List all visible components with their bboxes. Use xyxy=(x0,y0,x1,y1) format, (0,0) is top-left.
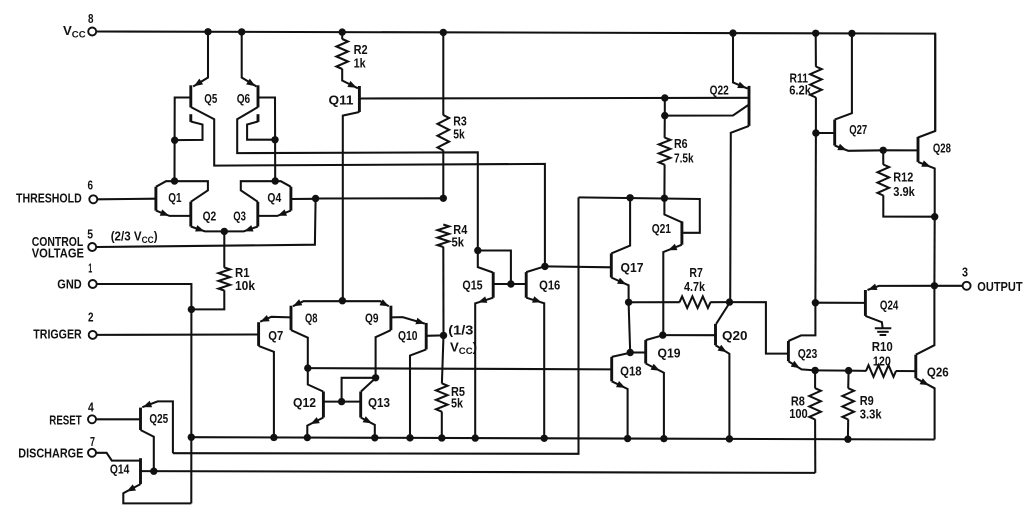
svg-text:Q12: Q12 xyxy=(293,395,316,410)
label R7 xyxy=(689,265,702,280)
transistor Q18 base bar xyxy=(610,357,613,381)
wire: Q15/Q16 base row xyxy=(493,283,526,285)
label 5k (R4) xyxy=(452,235,465,250)
svg-text:6: 6 xyxy=(88,178,94,193)
transistor Q8 base bar xyxy=(290,306,293,330)
label Vcc xyxy=(63,23,86,41)
label Q24 xyxy=(880,297,899,312)
svg-text:R7: R7 xyxy=(689,265,702,280)
label 5k xyxy=(453,126,465,141)
wire: Q8/Q12 node line right to Q18 base xyxy=(308,368,612,369)
label pin number 7 xyxy=(90,434,95,449)
label R10 xyxy=(872,339,893,354)
resistor R1 (10k) body xyxy=(219,268,231,291)
label Vcc) xyxy=(450,340,477,358)
transistor Q19 base bar xyxy=(644,340,647,363)
wire: Q4 base node right to R3/R4 junction xyxy=(316,197,444,199)
wire: Q5 inner collector hook xyxy=(175,122,203,141)
wire: OUTPUT node to pin 3 xyxy=(934,285,962,287)
junction dot R3/R4 junction xyxy=(440,195,447,202)
junction dot Q1/Q5 node xyxy=(171,177,178,184)
label OUTPUT xyxy=(977,279,1022,294)
pin VCC terminal circle (pin 8) xyxy=(88,28,96,36)
wire: Q3 collector to node and over to Q4 collector node xyxy=(241,181,275,202)
wire: Q25 emitter up over and down to reset net xyxy=(142,401,173,453)
transistor Q15 base bar xyxy=(492,272,495,298)
wire: Q5 base left and down to Q1 collector node xyxy=(175,98,191,182)
svg-text:Q14: Q14 xyxy=(110,462,130,477)
junction dot Q5 base / inner collector xyxy=(171,137,178,144)
label 120 xyxy=(873,353,891,368)
svg-text:RESET: RESET xyxy=(49,412,81,427)
wire: Q1 emitter to Q2 base xyxy=(156,211,191,216)
svg-text:DISCHARGE: DISCHARGE xyxy=(18,446,83,461)
svg-text:2: 2 xyxy=(88,310,94,325)
junction dot Q19 base node xyxy=(627,349,634,356)
wire: Q12 emitter down to bottom rail xyxy=(307,418,323,438)
wire: Q28 collector up to rail corner xyxy=(918,34,935,138)
transistor Q7 emitter arrow (PNP) xyxy=(260,315,269,322)
junction dot Q28 base node xyxy=(880,147,887,154)
svg-text:Q1: Q1 xyxy=(168,190,181,205)
junction dot Q4 base node xyxy=(312,195,319,202)
wire: Q25 collector down to Q14 collector node xyxy=(141,430,154,471)
wire: cross link from Q9/Q13 node to base row xyxy=(342,378,376,402)
svg-text:Q13: Q13 xyxy=(368,395,390,410)
svg-text:4: 4 xyxy=(88,400,94,415)
wire: Q16 emitter down to bottom rail xyxy=(526,298,544,438)
junction dots on VCC rail xyxy=(204,28,855,37)
wire: R5 bottom to bottom rail xyxy=(441,412,443,438)
junction dot Q27 base node xyxy=(812,129,819,136)
svg-text:R6: R6 xyxy=(674,136,688,151)
pin DISCHARGE terminal circle (pin 7) xyxy=(88,449,96,457)
label Q6 xyxy=(237,91,251,106)
label Q22 xyxy=(710,83,729,98)
wire: Q15 collector node over to base row xyxy=(478,251,511,285)
wire: Q21 collector feed xyxy=(664,198,682,222)
wire: Q12/Q13 base interconnect xyxy=(323,401,360,403)
label Q25 xyxy=(149,411,168,426)
ground symbol below Q24 xyxy=(875,328,892,335)
wire: VCC top rail from pin 8 to top-right corner xyxy=(97,32,936,132)
transistor Q17 emitter arrow xyxy=(617,278,626,285)
wire: Q18 emitter down to bottom rail xyxy=(612,381,628,438)
label 100 xyxy=(789,406,808,421)
wire: GND pin right then down to bottom rail and Q14 emitter corner xyxy=(97,284,192,503)
transistor Q24 emitter arrow (PNP) xyxy=(868,284,877,290)
transistor Q3 emitter arrow xyxy=(244,225,253,231)
svg-text:Q2: Q2 xyxy=(203,208,217,223)
wire: R8 node to R9 node xyxy=(815,369,849,371)
junction dot Q4/Q6 node xyxy=(272,177,279,184)
wire: Q28 emitter node down to OUTPUT node xyxy=(933,217,935,286)
wire: Q6 base right and down to Q4 collector node xyxy=(258,98,275,182)
transistor Q10 base bar xyxy=(425,323,428,350)
label GND xyxy=(57,276,81,291)
label Q23 xyxy=(798,346,818,361)
resistor R6 (7.5k) body xyxy=(659,138,671,165)
wire: R3 bottom to R4 node xyxy=(442,150,444,198)
wire: Q12 collector up to node xyxy=(308,368,323,391)
transistor Q9 emitter arrow (PNP) xyxy=(380,299,389,306)
junction dot Q25/Q14 collector node xyxy=(150,468,157,475)
svg-text:VOLTAGE: VOLTAGE xyxy=(32,245,84,260)
label Q16 xyxy=(539,278,560,293)
transistor Q11 emitter arrow (PNP, from R2) xyxy=(347,81,356,88)
label 6.2k xyxy=(789,83,811,98)
label 3.9k xyxy=(893,184,915,199)
transistor Q14 emitter arrow xyxy=(127,484,136,491)
wire: Q20 base line xyxy=(663,334,716,336)
wire: R2 bottom to Q11 emitter xyxy=(342,69,358,89)
transistor Q8 emitter arrow (PNP) xyxy=(293,299,302,306)
svg-text:R10: R10 xyxy=(872,339,893,354)
transistor Q18 emitter arrow xyxy=(616,381,625,388)
resistor R4 (5k) body xyxy=(438,225,450,248)
wire: R6 node line (reset net) with Q21 loop xyxy=(579,197,700,232)
label R12 xyxy=(893,170,913,185)
svg-text:Q7: Q7 xyxy=(268,328,283,343)
transistor Q22 emitter arrow (PNP) xyxy=(737,82,746,89)
svg-text:Q22: Q22 xyxy=(710,83,729,98)
transistor Q10 emitter arrow (PNP) xyxy=(415,318,424,325)
wire: Q13 collector diagonal up to Q9 node xyxy=(361,378,375,391)
transistor Q19 emitter arrow xyxy=(651,364,660,371)
wire: R6 top tap down xyxy=(664,98,666,116)
junction dot base row node xyxy=(507,280,514,287)
wire: VCC rail to Q5 emitter xyxy=(193,32,208,87)
svg-text:8: 8 xyxy=(88,11,94,26)
wire: OUTPUT node to Q24 emitter xyxy=(868,286,935,290)
wire: Q28 base node down to R12 xyxy=(882,150,884,164)
transistor Q6 second (inner) bar xyxy=(257,114,260,122)
label Q20 xyxy=(722,328,748,343)
wire: R10 right lead to Q26 base xyxy=(896,370,916,372)
svg-text:Q25: Q25 xyxy=(149,411,168,426)
svg-text:Q10: Q10 xyxy=(398,328,418,343)
wire: R11 node down to Q24 base node xyxy=(814,133,817,303)
wire: Q6 outer collector down and right to Q15 collector line xyxy=(237,107,478,251)
label R4 xyxy=(453,222,468,237)
svg-text:Q9: Q9 xyxy=(365,311,379,326)
transistor Q1 base bar xyxy=(154,187,157,211)
transistor Q13 base bar xyxy=(359,392,362,418)
wire: Q24 collector to ground symbol xyxy=(865,316,882,328)
svg-text:Q20: Q20 xyxy=(722,328,748,343)
svg-text:Q26: Q26 xyxy=(927,364,949,379)
label pin number 3 xyxy=(962,265,968,280)
label 1k xyxy=(354,56,367,71)
label Q17 xyxy=(621,260,644,275)
junction dot Q16 collector node xyxy=(541,263,548,270)
transistor Q27 base bar xyxy=(833,120,836,146)
transistor Q17 base bar xyxy=(610,253,613,277)
wire: Q10 base right to 1/3 Vcc node xyxy=(426,334,443,336)
transistor Q2 base bar xyxy=(189,202,192,227)
label Q5 xyxy=(204,91,217,106)
svg-text:Q19: Q19 xyxy=(658,346,681,361)
label 4.7k xyxy=(684,279,706,294)
junction dot OUTPUT node xyxy=(931,282,938,289)
wire: R6 top node to resistor xyxy=(664,116,666,138)
wire: R7 left lead xyxy=(629,301,680,303)
label R2 xyxy=(354,42,368,57)
svg-text:Q11: Q11 xyxy=(329,93,354,108)
label Q3 xyxy=(233,208,246,223)
svg-text:Q17: Q17 xyxy=(621,260,644,275)
wire: Q23 collector jog up to Q24 base node xyxy=(788,303,815,341)
label Q12 xyxy=(293,395,316,410)
label Q19 xyxy=(658,346,681,361)
transistor Q28 base bar xyxy=(917,137,920,162)
label DISCHARGE xyxy=(18,446,83,461)
junction dot R7/Q20/Q22 node xyxy=(726,298,733,305)
label Q26 xyxy=(927,364,949,379)
transistor Q23 base bar xyxy=(787,341,790,361)
wire: Q16 collector up to Q5 line xyxy=(526,266,545,272)
wire: Q15 collector node down from Q6 line xyxy=(478,251,493,273)
label Q4 xyxy=(267,190,281,205)
transistor Q4 base bar xyxy=(289,187,292,211)
junction dot Q17 collector on node line xyxy=(626,194,633,201)
wire: Q27 base from node xyxy=(816,132,835,134)
wire: Q9 collector down to Q13 node xyxy=(376,330,391,378)
wire: Q22 collector down to R7 node xyxy=(730,126,749,302)
label R8 xyxy=(791,394,805,409)
transistor Q7 base bar xyxy=(257,322,260,346)
label Q9 xyxy=(365,311,379,326)
wire: TRIGGER pin to Q7 base xyxy=(97,333,259,335)
junction dot Q20 base node xyxy=(659,331,666,338)
junction dot Q9/Q13 collector node xyxy=(372,374,379,381)
resistor R9 (3.3k) body xyxy=(842,388,854,419)
transistor Q25 emitter arrow (PNP) xyxy=(143,401,152,407)
label VOLTAGE xyxy=(32,245,84,260)
junction dot Q2/Q3 common emitter node xyxy=(221,228,228,235)
label Q15 xyxy=(462,278,482,293)
svg-text:7: 7 xyxy=(90,434,95,449)
wire: R9 node down to resistor xyxy=(847,371,849,389)
pin RESET terminal circle (pin 4) xyxy=(88,415,96,423)
wire: R7 node diagonal to Q20 collector xyxy=(716,303,729,324)
label 7.5k xyxy=(674,150,694,165)
svg-text:4.7k: 4.7k xyxy=(684,279,706,294)
label pin number 8 xyxy=(88,11,94,26)
label 5k (R5) xyxy=(451,396,464,411)
resistor R10 (120) body xyxy=(866,365,896,377)
label 10k xyxy=(235,278,256,293)
wire: R9 bottom to bottom rail xyxy=(847,419,849,439)
svg-text:5k: 5k xyxy=(452,235,465,250)
label pin number 1 xyxy=(88,260,92,275)
junction dot R1/GND junction xyxy=(188,306,195,313)
label R3 xyxy=(453,114,467,129)
transistor Q16 base bar xyxy=(525,272,528,298)
wire: VCC rail to R2 top xyxy=(341,32,343,39)
resistor R2 (1k) body xyxy=(336,39,348,69)
transistor Q5 emitter arrow (PNP) xyxy=(194,79,203,87)
resistor R3 (5k) body xyxy=(438,115,450,151)
wire: R1 bottom to GND line xyxy=(191,290,224,309)
wire: Q7 emitter lead to Q8 base xyxy=(260,317,291,322)
svg-text:1: 1 xyxy=(88,260,92,275)
label Q11 xyxy=(329,93,354,108)
transistor Q11 base bar xyxy=(358,86,361,112)
wire: Q11 collector down to Q8/Q9 emitter node xyxy=(343,112,360,300)
wire: 1/3 Vcc node down to R5 xyxy=(442,335,444,383)
label (1/3 xyxy=(448,323,473,338)
wire: Q11 base line to Q22 base xyxy=(359,97,749,100)
wire: R8 bottom through rail to discharge line xyxy=(814,419,816,473)
wire: Q13 emitter down to bottom rail xyxy=(361,418,375,438)
wire: Q4 base right to divider node xyxy=(291,198,316,200)
transistor Q14 base bar xyxy=(139,458,142,484)
junction dot Q24 base node xyxy=(812,299,819,306)
wire: Q15 emitter down to bottom rail xyxy=(475,298,493,438)
junction dot Q6 base / inner collector xyxy=(271,136,278,143)
transistor Q2 emitter arrow xyxy=(195,225,204,231)
label R11 xyxy=(790,70,809,85)
wire: Q4 collector up to Q6 node xyxy=(275,181,291,187)
label Q14 xyxy=(110,462,130,477)
wire: Q2 emitter to common node xyxy=(191,227,225,232)
wire: Q9 base to Q10 emitter xyxy=(391,317,425,324)
label Q10 xyxy=(398,328,418,343)
svg-text:GND: GND xyxy=(57,276,81,291)
wire: R10 left lead xyxy=(849,370,867,372)
wire: Q26 collector up to OUTPUT node xyxy=(916,286,935,355)
junction dot Q11 base / R6 tap xyxy=(661,94,668,101)
svg-text:5k: 5k xyxy=(453,126,465,141)
wire: Q19 collector up to Q21 node xyxy=(646,335,663,340)
wire: Q5 outer collector down and right to Q16 collector line xyxy=(191,107,545,266)
svg-text:Q5: Q5 xyxy=(204,91,217,106)
wire: Q8 collector down to Q12 node xyxy=(291,330,308,368)
junction dot Q15 collector node xyxy=(474,247,481,254)
label 3.3k xyxy=(860,406,882,421)
label Q13 xyxy=(368,395,390,410)
wire: DISCHARGE pin to Q14 base xyxy=(96,453,140,461)
transistor Q22 base bar xyxy=(748,86,751,126)
svg-text:Q15: Q15 xyxy=(462,278,482,293)
transistor Q12 base bar xyxy=(322,392,325,418)
junction dot R6 bottom on node line xyxy=(661,195,668,202)
wire: Q7 collector down to bottom rail xyxy=(259,346,274,438)
label pin number 4 xyxy=(88,400,94,415)
junction dot Q23 emitter / R8 node xyxy=(811,367,818,374)
resistor R12 (3.9k) body xyxy=(878,165,890,196)
pin OUTPUT terminal circle (pin 3) xyxy=(963,282,971,290)
wire: R7 node to Q23 base xyxy=(730,302,789,354)
label THRESHOLD xyxy=(16,191,82,206)
transistor Q23 emitter arrow xyxy=(791,361,800,369)
wire: THRESHOLD pin to Q1 base xyxy=(97,198,156,201)
wire: Q24 base from node xyxy=(815,302,865,304)
wire: R4 bottom to 1/3 Vcc node xyxy=(442,247,444,336)
wire: R12 bottom to Q28 emitter line xyxy=(883,195,934,216)
junction dot Q8/Q9 emitter node xyxy=(339,297,346,304)
wire: Q4 emitter to Q3 base xyxy=(258,211,291,216)
junction dot Q8 collector node xyxy=(304,364,311,371)
wire: common emitter node down to R1 xyxy=(223,231,225,267)
svg-text:Q16: Q16 xyxy=(539,278,560,293)
svg-text:Q3: Q3 xyxy=(233,208,246,223)
svg-text:7.5k: 7.5k xyxy=(674,150,694,165)
svg-text:5: 5 xyxy=(87,226,93,241)
wire: reset net long line to right riser xyxy=(173,197,579,453)
transistor Q15 emitter arrow xyxy=(478,296,487,303)
transistor Q3 base bar xyxy=(256,202,259,227)
pin GND terminal circle (pin 1) xyxy=(89,280,97,288)
label TRIGGER xyxy=(33,326,82,341)
transistor Q25 base bar xyxy=(139,408,142,430)
transistor Q20 base bar xyxy=(714,324,717,345)
wire: Q17 collector up to R6 line xyxy=(611,198,630,254)
wire: VCC rail to Q22 emitter xyxy=(733,33,748,89)
svg-text:6.2k: 6.2k xyxy=(789,83,811,98)
wire: Q1 collector to node and over to Q2 collector xyxy=(156,181,208,202)
wire: Q26 emitter down to rail end xyxy=(916,378,935,439)
wire: R6 bottom to node line xyxy=(663,165,665,199)
wire: VCC rail down to R11 xyxy=(815,33,817,66)
transistor Q26 emitter arrow xyxy=(920,378,929,385)
wire: Q17 emitter down to R7 node xyxy=(611,278,628,303)
svg-text:3.3k: 3.3k xyxy=(860,406,882,421)
label Q2 xyxy=(203,208,217,223)
transistor Q12 emitter arrow xyxy=(310,417,319,424)
label pin number 2 xyxy=(88,310,94,325)
transistor Q5 main base bar xyxy=(189,85,192,107)
junction dot R9/R10 node xyxy=(845,367,852,374)
wire: R7 right lead xyxy=(710,301,729,303)
junction dot base row xyxy=(338,398,345,405)
transistor Q21 base bar xyxy=(680,221,683,244)
transistor Q9 base bar xyxy=(389,306,392,330)
transistor Q26 base bar xyxy=(914,355,917,379)
label RESET xyxy=(49,412,81,427)
wire: Q22 lower base lead xyxy=(665,105,749,116)
wire: Q20 emitter down to bottom rail xyxy=(716,345,730,439)
svg-text:(1/3: (1/3 xyxy=(448,323,473,338)
wire: Q23 emitter to R8 node xyxy=(788,361,815,370)
label R5 xyxy=(451,384,465,399)
junction dot R6 top node xyxy=(661,112,668,119)
svg-text:Q8: Q8 xyxy=(305,311,318,326)
transistor Q1 emitter arrow xyxy=(160,209,169,215)
junction dot R12/Q28 emitter node xyxy=(931,213,938,220)
label R1 xyxy=(235,265,250,280)
svg-text:Q24: Q24 xyxy=(880,297,899,312)
wire: Q18 collector to Q19 base node xyxy=(612,353,631,357)
wire: Q17/R7 node down to Q19 base node xyxy=(629,302,631,352)
svg-text:3.9k: 3.9k xyxy=(893,184,915,199)
wire: CONTROL VOLTAGE pin up to Q4 base node xyxy=(96,199,315,248)
wire: Q28 base from node xyxy=(883,149,918,151)
wire: Q16 collector node right to Q17 base xyxy=(545,265,611,268)
transistor Q4 emitter arrow xyxy=(278,209,287,215)
svg-text:1k: 1k xyxy=(354,56,367,71)
label Q21 xyxy=(652,221,671,236)
wire: Q27 emitter to Q28 base node xyxy=(835,146,884,151)
wire: Q10 collector down to bottom rail xyxy=(410,349,426,437)
svg-text:Q28: Q28 xyxy=(933,141,951,156)
resistor R11 (6.2k) body xyxy=(810,67,822,98)
label pin number 6 xyxy=(88,178,94,193)
label Q18 xyxy=(620,364,642,379)
label Q8 xyxy=(305,311,318,326)
pin TRIGGER terminal circle (pin 2) xyxy=(89,331,97,339)
